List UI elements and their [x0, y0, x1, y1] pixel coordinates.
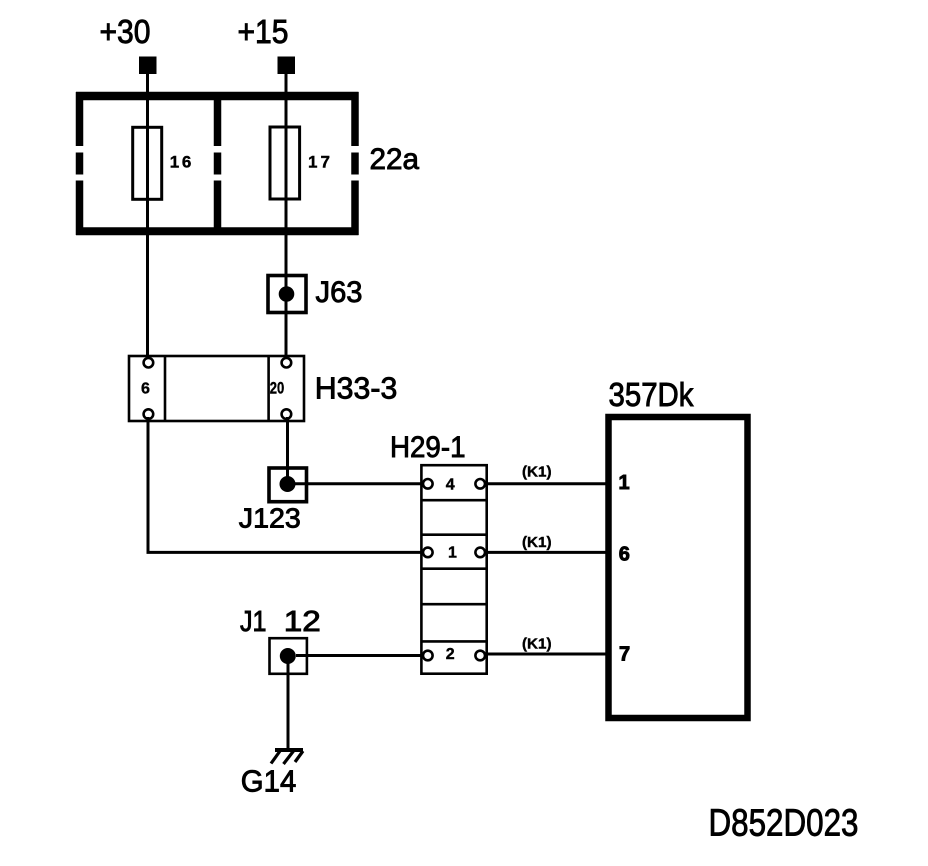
connector H29-1 pin 2 left circle [423, 651, 433, 661]
svg-text:16: 16 [170, 153, 192, 172]
junction J1 12 [270, 638, 307, 674]
connector H29-1 divider 3 [421, 567, 486, 570]
svg-text:7: 7 [619, 644, 630, 666]
svg-text:2: 2 [446, 646, 455, 663]
svg-text:J63: J63 [316, 276, 363, 309]
connector H29-1 divider 2 [421, 533, 486, 536]
connector H29-1 divider 4 [421, 603, 486, 606]
junction J63 [268, 276, 306, 313]
connector H33-3 pin 20 bottom circle [282, 409, 292, 419]
wire H29-1 pin 4 to 357Dk pin 1 [485, 482, 608, 485]
wire +15 terminal through fuse 17 to J63 [285, 73, 288, 294]
connector H33-3 right internal divider [267, 356, 270, 421]
connector H29-1 [421, 465, 486, 674]
svg-text:1: 1 [619, 472, 630, 494]
connector H29-1 divider 1 [421, 499, 486, 502]
connector H29-1 pin 1 right circle [475, 548, 485, 558]
svg-text:+15: +15 [238, 13, 289, 50]
wire +30 terminal through fuse 16 to H33-3 pin 6 [146, 73, 149, 358]
svg-text:(K1): (K1) [522, 465, 552, 481]
ground G14 bar [275, 748, 303, 752]
svg-text:357Dk: 357Dk [609, 376, 694, 413]
fusebox 22a right dashed border [351, 92, 359, 235]
ground G14 hatch 3 [295, 751, 303, 762]
wire J123 to H29-1 pin 4 [288, 482, 424, 485]
junction J123 [269, 468, 307, 502]
wire H29-1 pin 2 to 357Dk pin 7 [485, 653, 608, 656]
connector H33-3 [129, 356, 304, 421]
svg-text:1: 1 [448, 544, 457, 561]
connector H29-1 pin 2 right circle [475, 651, 485, 661]
svg-text:G14: G14 [241, 764, 296, 799]
connector H29-1 pin 1 left circle [423, 548, 433, 558]
svg-text:H29-1: H29-1 [390, 431, 466, 464]
wire J1 to ground G14 [287, 656, 290, 750]
svg-text:22a: 22a [370, 143, 420, 176]
svg-text:D852D023: D852D023 [709, 802, 859, 844]
connector H29-1 pin 4 left circle [423, 479, 433, 489]
svg-text:J1: J1 [240, 606, 267, 638]
fuse 16 [133, 127, 162, 199]
connector H33-3 pin 6 top circle [144, 358, 154, 368]
svg-text:H33-3: H33-3 [315, 370, 398, 405]
fusebox 22a bottom border [76, 227, 359, 235]
svg-text:+30: +30 [100, 13, 151, 50]
connector H29-1 pin 4 right circle [475, 479, 485, 489]
fusebox 22a top border [76, 92, 359, 101]
svg-text:17: 17 [308, 153, 330, 172]
ground G14 hatch 2 [284, 751, 294, 764]
svg-text:(K1): (K1) [522, 535, 552, 551]
fusebox 22a left dashed border [76, 92, 84, 235]
svg-text:4: 4 [446, 477, 455, 494]
wire H33-3 pin 20 to J123 [286, 417, 289, 484]
fusebox 22a middle dashed divider [214, 92, 222, 235]
junction J63 dot [279, 286, 295, 302]
wire H33-3 pin 6 to H29-1 pin 1 [148, 417, 424, 552]
terminal +15 [278, 57, 296, 75]
svg-text:20: 20 [270, 380, 285, 398]
junction J123 dot [280, 476, 296, 492]
wire J1 to H29-1 pin 2 [296, 654, 424, 657]
connector H29-1 divider 5 [421, 640, 486, 643]
unit 357Dk [609, 417, 748, 718]
svg-text:6: 6 [619, 543, 630, 565]
svg-text:6: 6 [141, 381, 150, 398]
svg-text:12: 12 [284, 606, 321, 638]
wire H29-1 pin 1 to 357Dk pin 6 [485, 551, 608, 554]
svg-text:(K1): (K1) [522, 636, 552, 652]
fuse 17 [270, 127, 300, 199]
ground G14 hatch 1 [271, 751, 280, 764]
connector H33-3 pin 20 top circle [282, 358, 292, 368]
junction J1 dot [280, 648, 296, 664]
svg-text:J123: J123 [239, 503, 301, 534]
connector H33-3 pin 6 bottom circle [144, 409, 154, 419]
terminal +30 [139, 57, 157, 75]
connector H33-3 left internal divider [164, 356, 167, 421]
wire J63 to H33-3 pin 20 [285, 294, 288, 358]
